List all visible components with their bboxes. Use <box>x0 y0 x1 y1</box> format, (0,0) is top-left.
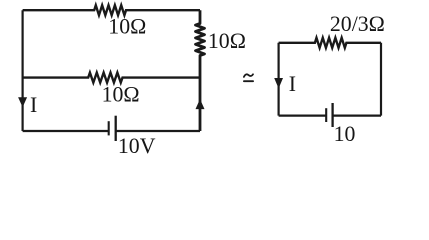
svg-text:10Ω: 10Ω <box>102 83 140 107</box>
svg-text:10Ω: 10Ω <box>108 15 146 39</box>
svg-text:I: I <box>30 93 37 117</box>
svg-text:I: I <box>289 72 296 96</box>
svg-text:10: 10 <box>334 122 356 146</box>
svg-text:10V: 10V <box>118 134 156 158</box>
svg-text:20/3Ω: 20/3Ω <box>330 12 385 36</box>
svg-text:10Ω: 10Ω <box>208 29 246 53</box>
